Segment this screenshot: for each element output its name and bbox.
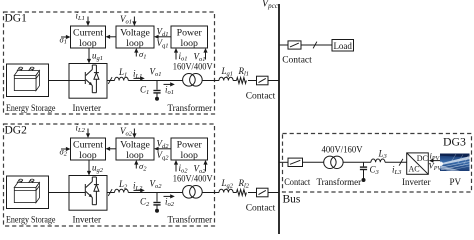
svg-text:Power: Power	[177, 139, 203, 150]
svg-text:Voltage: Voltage	[120, 139, 150, 150]
arrow io2 into power loop	[175, 164, 177, 172]
contact switch load	[288, 41, 301, 49]
inverter box U1	[69, 64, 107, 99]
wire contact to Load	[301, 44, 332, 46]
svg-text:Energy Storage: Energy Storage	[6, 103, 56, 113]
arrow sigma2 into voltage loop bottom	[135, 164, 137, 169]
inverter box U2	[69, 176, 107, 211]
inductor Lg1	[219, 77, 233, 80]
svg-text:160V/400V: 160V/400V	[173, 61, 213, 71]
arrow iL1 on wire	[134, 77, 142, 79]
three-phase slash mark (DG3)	[399, 159, 403, 166]
arrow sigma2 into current loop	[61, 148, 67, 150]
svg-text:loop: loop	[79, 38, 97, 49]
svg-text:400V/160V: 400V/160V	[322, 145, 363, 155]
inductor L3	[371, 159, 385, 162]
arrow io1 into power loop	[175, 52, 177, 60]
arrow Vo1 into power loop	[205, 52, 207, 60]
svg-text:Contact: Contact	[246, 204, 276, 214]
battery icon ES2	[14, 179, 39, 203]
terminal dot below C2	[155, 209, 159, 213]
DG2 dashed boundary box	[4, 124, 215, 226]
transformer T1	[183, 74, 196, 87]
PV solar panel image	[439, 154, 470, 172]
wire capacitor-to-terminal	[363, 170, 365, 179]
svg-text:Inverter: Inverter	[73, 103, 101, 113]
svg-text:AC: AC	[409, 165, 420, 174]
wire Rl1 to contact	[248, 80, 257, 82]
arrow voltage loop to current loop	[109, 148, 116, 150]
current loop box	[71, 138, 106, 160]
svg-text:Vpcc: Vpcc	[262, 0, 279, 10]
wire L3 to inverter U3	[385, 161, 407, 163]
svg-text:loop: loop	[126, 38, 144, 49]
arrow Vo2 into power loop	[205, 164, 207, 172]
arrow sigma1 into voltage loop bottom	[135, 52, 137, 57]
wire L1 to transformer	[128, 80, 182, 82]
arrow power loop to voltage loop	[158, 36, 172, 38]
power loop box	[171, 26, 208, 48]
DG1 dashed boundary box	[4, 12, 215, 114]
svg-text:Current: Current	[73, 27, 103, 38]
svg-text:PV: PV	[450, 177, 462, 187]
inductor Lg2	[219, 189, 233, 192]
resistor Rl2	[237, 190, 247, 196]
svg-text:loop: loop	[79, 150, 97, 161]
current loop box	[71, 26, 106, 48]
wire Lg1 to Rl1	[233, 80, 236, 82]
svg-text:Inverter: Inverter	[73, 215, 101, 225]
svg-text:DG2: DG2	[5, 123, 27, 137]
energy storage box ES1	[7, 64, 49, 97]
wire capacitor-to-terminal	[156, 93, 158, 98]
svg-text:Transformer: Transformer	[317, 177, 362, 187]
capacitor C3	[360, 166, 367, 168]
wire transformer to DG2 boundary	[202, 192, 219, 194]
arrow Vo2 into voltage loop	[133, 129, 135, 135]
arrow iL2 on wire	[134, 189, 142, 191]
arrow voltage loop to current loop	[109, 36, 116, 38]
battery icon ES1	[14, 67, 39, 91]
transformer T3	[324, 156, 336, 168]
diagonal divider inside U3	[407, 153, 429, 174]
arrow sigma1 into current loop	[61, 36, 67, 38]
arrow iL2 into current loop	[87, 129, 89, 135]
terminal dot below C3	[362, 178, 366, 182]
arrow io1 on wire	[164, 83, 172, 85]
wire contact to bus	[268, 80, 279, 82]
arrow ug2 current loop to inverter	[88, 160, 90, 172]
arrow iPV from PV into inverter	[432, 160, 440, 162]
svg-text:Current: Current	[73, 139, 103, 150]
wire node-to-capacitor C2	[156, 193, 158, 202]
arrow power loop to voltage loop	[158, 148, 172, 150]
DG3 dashed boundary box	[283, 134, 472, 193]
svg-text:loop: loop	[180, 150, 198, 161]
svg-text:Power: Power	[177, 27, 203, 38]
wire L2 to transformer	[128, 192, 182, 194]
svg-text:Load: Load	[333, 41, 352, 51]
wire transformer to L3	[343, 161, 371, 163]
capacitor C2	[153, 202, 160, 204]
inductor L2	[115, 189, 129, 192]
wire contact to bus	[268, 192, 279, 194]
wire ES2 to inverter	[49, 192, 70, 194]
bus PCC vertical line	[278, 4, 280, 234]
wire capacitor-to-terminal	[156, 205, 158, 210]
svg-text:Contact: Contact	[284, 177, 310, 187]
wire Rl2 to contact	[248, 192, 257, 194]
svg-text:Contact: Contact	[282, 56, 312, 66]
arrow io2 on wire	[164, 195, 172, 197]
capacitor C1	[153, 90, 160, 92]
load box	[332, 40, 354, 52]
wire Lg2 to Rl2	[233, 192, 236, 194]
voltage loop box	[116, 138, 154, 160]
IGBT with freewheeling diode inside inverter U2	[69, 177, 99, 205]
resistor Rl1	[237, 78, 247, 84]
contact switch S3	[288, 158, 303, 166]
wire bus to DG3 contact	[279, 161, 288, 163]
svg-text:Contact: Contact	[246, 92, 276, 102]
wire node-to-capacitor C1	[156, 81, 158, 90]
terminal dot below C1	[155, 97, 159, 101]
wire contact to transformer T3	[303, 161, 324, 163]
svg-text:Bus: Bus	[283, 193, 301, 205]
contact switch S1	[257, 76, 269, 85]
arrow ug1 current loop to inverter	[88, 48, 90, 60]
svg-text:loop: loop	[126, 150, 144, 161]
inverter box U3 (DC/AC)	[407, 153, 429, 174]
inductor L1	[115, 77, 129, 80]
wire node-to-capacitor C3	[363, 162, 365, 166]
svg-text:Inverter: Inverter	[402, 177, 430, 187]
transformer T2	[183, 186, 196, 199]
IGBT with freewheeling diode inside inverter U1	[69, 65, 99, 93]
svg-text:Transformer: Transformer	[168, 215, 213, 225]
svg-text:DG3: DG3	[443, 134, 466, 148]
power loop box	[171, 138, 208, 160]
voltage loop box	[116, 26, 154, 48]
three-phase slash mark (load feeder)	[313, 42, 317, 49]
arrow Vo1 into voltage loop	[133, 17, 135, 23]
svg-text:Transformer: Transformer	[168, 103, 213, 113]
arrow iL1 into current loop	[87, 17, 89, 23]
svg-text:Voltage: Voltage	[120, 27, 150, 38]
wire inverter output	[107, 192, 115, 194]
three-phase slash mark	[108, 189, 112, 196]
three-phase slash mark	[108, 77, 112, 84]
energy storage box ES2	[7, 176, 49, 209]
contact switch S2	[257, 188, 269, 197]
wire bus to load contact	[279, 44, 288, 46]
svg-text:DC: DC	[417, 154, 428, 163]
wire transformer to DG1 boundary	[202, 80, 219, 82]
wire inverter output	[107, 80, 115, 82]
svg-text:DG1: DG1	[5, 11, 27, 25]
svg-text:160V/400V: 160V/400V	[173, 173, 213, 183]
wire ES1 to inverter	[49, 80, 70, 82]
svg-text:loop: loop	[180, 38, 198, 49]
svg-text:Energy Storage: Energy Storage	[6, 215, 56, 225]
